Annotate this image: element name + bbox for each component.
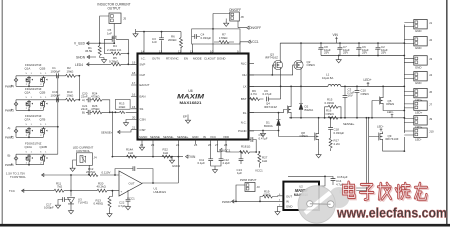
svg-text:21: 21: [132, 126, 136, 130]
svg-text:J4: J4: [94, 155, 97, 159]
svg-text:VCC1: VCC1: [222, 149, 231, 153]
svg-text:16: 16: [132, 92, 136, 96]
svg-text:LED-: LED-: [415, 138, 422, 142]
svg-text:DH: DH: [242, 73, 246, 77]
svg-text:J6: J6: [429, 90, 432, 94]
svg-text:0.110V: 0.110V: [102, 171, 111, 175]
svg-text:2: 2: [26, 84, 28, 86]
wire U2 VCC top feed: [288, 176, 325, 186]
wire LX line to inductor: [249, 85, 329, 87]
svg-text:25V: 25V: [324, 50, 329, 54]
svg-text:SENSE+: SENSE+: [177, 135, 189, 139]
wire twin sense pair down: [342, 118, 369, 191]
wire Q3 Q2 drains to LX line: [281, 70, 301, 87]
svg-text:MAX16821: MAX16821: [180, 100, 203, 105]
svg-text:TCC: TCC: [9, 189, 15, 193]
ground CSN pin: [123, 120, 131, 126]
svg-text:+: +: [356, 47, 358, 51]
svg-text:Q1B: Q1B: [40, 66, 46, 70]
svg-text:Q10B: Q10B: [40, 145, 47, 149]
connector J1: [404, 20, 432, 34]
wire VCC1 feed to R18: [226, 144, 240, 152]
wire J5 to V_ILED node: [100, 16, 109, 43]
svg-text:SHDN: SHDN: [76, 56, 86, 60]
svg-text:Q7B: Q7B: [40, 117, 46, 121]
svg-text:40.2kΩ: 40.2kΩ: [97, 185, 107, 189]
capacitor C11 0.1uF on GND pin: [198, 144, 216, 168]
svg-text:1nF: 1nF: [152, 40, 157, 44]
wire Q8 drain to sense rail: [318, 118, 320, 132]
resistor R22 1k: [162, 148, 172, 159]
wire J3 to PWM3 line: [236, 185, 245, 201]
transistor pair Q10A/Q10B FDG6317NZ: [16, 141, 56, 165]
svg-text:26: 26: [208, 143, 212, 147]
wire SENSE- pin down to op-amp output: [177, 144, 179, 183]
svg-text:5: 5: [26, 124, 28, 126]
watermark text chinese (hand-drawn strokes): [343, 182, 428, 201]
capacitor C17 1000pF: [44, 197, 71, 210]
svg-text:OUT: OUT: [286, 194, 292, 198]
svg-text:ON/OFF: ON/OFF: [249, 26, 261, 30]
svg-text:25V: 25V: [381, 50, 386, 54]
svg-text:PWM INPUT: PWM INPUT: [240, 178, 257, 182]
svg-text:LED-: LED-: [387, 110, 394, 114]
connector J3: [404, 56, 432, 70]
wire SENSE pin down to sense line: [152, 144, 154, 157]
svg-text:Q2B: Q2B: [40, 90, 46, 94]
svg-text:LED+: LED+: [415, 125, 423, 129]
svg-text:EAN: EAN: [140, 95, 146, 99]
ground at pin 14 node: [133, 32, 138, 37]
capacitor C2a top loop: [104, 39, 128, 64]
wire pin14 to R6 branch: [144, 32, 181, 48]
svg-text:www.elecfans.com: www.elecfans.com: [336, 205, 447, 221]
wire sense rail LED-: [289, 117, 404, 119]
capacitor C19 1000pF: [51, 90, 66, 102]
svg-text:PWM1: PWM1: [5, 163, 14, 167]
svg-text:CONTROL: CONTROL: [76, 149, 91, 153]
capacitor C9 0.47uF on BST: [263, 89, 281, 102]
capacitor C14 4.7uF: [333, 179, 344, 194]
resistor R14A 1k: [126, 148, 137, 159]
U6 right pin names: [238, 62, 247, 134]
svg-text:4.7µF: 4.7µF: [118, 204, 126, 208]
svg-text:25V: 25V: [343, 50, 348, 54]
svg-text:N.C.: N.C.: [241, 120, 247, 124]
net label ON/OFF right: [247, 26, 249, 29]
ground GND4 on sense line: [169, 156, 180, 168]
resistor R23 10k in box on EAN line: [115, 99, 131, 113]
wire row A to row B join: [102, 100, 110, 113]
svg-text:A): A): [8, 126, 11, 130]
svg-text:0.033µF: 0.033µF: [334, 131, 345, 135]
svg-text:LX: LX: [243, 85, 247, 89]
svg-text:J3: J3: [257, 185, 260, 189]
svg-text:OPEN: OPEN: [300, 134, 308, 138]
svg-text:1: 1: [45, 97, 47, 99]
ground at J8: [225, 19, 227, 22]
svg-text:19: 19: [132, 61, 136, 65]
svg-text:5: 5: [40, 151, 42, 153]
resistor R9 4.7 on BST: [249, 89, 264, 101]
svg-text:TLV431: TLV431: [78, 201, 88, 205]
svg-text:PWM2: PWM2: [5, 136, 14, 140]
svg-text:1kΩ: 1kΩ: [262, 159, 268, 163]
svg-text:CLP: CLP: [140, 73, 146, 77]
wire TCC line to op-amp plus: [22, 190, 120, 192]
svg-text:IRF7416Z: IRF7416Z: [265, 55, 278, 59]
svg-text:LED+: LED+: [415, 111, 423, 115]
svg-text:0.1µF: 0.1µF: [198, 161, 206, 165]
node PWM2 input port: [5, 127, 18, 140]
resistor R7 178k: [214, 33, 234, 44]
svg-text:LED4: LED4: [75, 63, 83, 67]
wire Q2 source to VIN rail: [300, 43, 302, 60]
svg-text:2: 2: [40, 84, 42, 86]
wire comp box to IC: [192, 43, 194, 45]
svg-text:B): B): [82, 111, 85, 115]
ground at return rail: [338, 56, 340, 58]
svg-text:GND: GND: [415, 46, 421, 50]
svg-text:24: 24: [176, 143, 180, 147]
svg-text:10kΩ: 10kΩ: [119, 105, 127, 109]
svg-text:1000pF: 1000pF: [51, 93, 61, 97]
capacitor C18 0.033uF column: [328, 117, 344, 138]
svg-text:2: 2: [26, 108, 28, 110]
wire BST node to LX: [280, 86, 282, 99]
svg-text:5: 5: [26, 151, 28, 153]
page frame bottom border: [0, 224, 450, 227]
svg-text:-: -: [121, 173, 122, 177]
svg-text:OPEN: OPEN: [326, 112, 334, 116]
svg-text:1Ω: 1Ω: [247, 145, 252, 149]
wire Q3 source to VIN rail: [279, 43, 281, 60]
svg-text:2: 2: [40, 135, 42, 137]
capacitor C5 1nF: [107, 28, 117, 38]
svg-text:SENSE+: SENSE+: [101, 130, 113, 134]
svg-text:5: 5: [26, 97, 28, 99]
wire PWM3 to U2 IN: [232, 200, 278, 202]
node B RC row C21 R26: [81, 104, 138, 115]
wire RC join vertical: [78, 76, 80, 100]
resistor R12 26.7k: [86, 167, 98, 177]
svg-text:DL: DL: [243, 111, 247, 115]
potentiometer box R21 LED current control: [76, 153, 97, 166]
svg-text:1µF: 1µF: [237, 171, 242, 175]
resistor R15 0.039 sense: [324, 98, 342, 119]
transistor Q3 IRF7416: [265, 52, 283, 69]
wire ON/OFF box to EN drop: [213, 13, 230, 15]
svg-text:5: 5: [26, 73, 28, 75]
svg-text:VDD: VDD: [223, 135, 229, 139]
resistor R20 40.2k: [97, 181, 108, 192]
wire VIN input rail: [280, 42, 404, 44]
svg-text:2: 2: [40, 163, 42, 165]
ground at R1: [101, 58, 106, 63]
svg-text:GND4: GND4: [172, 164, 180, 168]
page frame right border: [446, 0, 448, 226]
wire TCONTROL to op-amp minus: [42, 174, 120, 176]
svg-text:SGND: SGND: [139, 135, 147, 139]
wire J5 pin2 down through C5: [113, 24, 115, 44]
capacitor C13 1uF: [237, 151, 244, 175]
wire op-amp output: [142, 182, 178, 184]
svg-text:2.49kΩ 1%: 2.49kΩ 1%: [107, 48, 122, 52]
svg-text:MODE: MODE: [193, 56, 202, 60]
capacitor C15 1uF: [325, 175, 348, 184]
svg-text:200kΩ: 200kΩ: [168, 38, 177, 42]
svg-text:CLKOUT: CLKOUT: [204, 56, 216, 60]
svg-text:2.2µF: 2.2µF: [223, 161, 231, 165]
svg-text:PWM3: PWM3: [5, 109, 14, 113]
wire Q4 drain to LX: [290, 86, 292, 105]
svg-text:OPEN: OPEN: [307, 63, 315, 67]
svg-text:+: +: [121, 190, 123, 194]
svg-text:+: +: [318, 47, 320, 51]
svg-text:Q7A: Q7A: [25, 117, 31, 121]
svg-text:5: 5: [40, 97, 42, 99]
wire V_ILED: [87, 42, 115, 44]
wire DH to gates of Q2 Q3: [249, 65, 294, 75]
transistor pair Q2A/Q2B FDG6317NZ: [16, 87, 56, 111]
svg-text:27: 27: [215, 143, 219, 147]
svg-text:0.47µF: 0.47µF: [263, 92, 272, 96]
resistor R19 10k: [260, 189, 278, 201]
svg-text:J2: J2: [429, 38, 432, 42]
svg-text:J7: J7: [429, 102, 432, 106]
capacitor C4 0.033uF: [192, 33, 212, 40]
connector J10: [404, 128, 434, 142]
svg-text:9.76kΩ: 9.76kΩ: [109, 59, 119, 63]
transistor Q2 OPEN: [294, 60, 315, 70]
ground at U2 GND: [277, 206, 279, 209]
svg-text:2.2Ω: 2.2Ω: [334, 142, 341, 146]
svg-text:LMH6321: LMH6321: [154, 190, 167, 194]
svg-text:CSP: CSP: [140, 128, 146, 132]
svg-text:2: 2: [26, 135, 28, 137]
shunt reference U3 TLV431: [68, 191, 89, 209]
svg-text:GND: GND: [192, 135, 198, 139]
svg-text:GND: GND: [286, 205, 292, 209]
U6 top pin names: [141, 56, 226, 60]
U6 left pin stubs: [131, 64, 138, 129]
wire LED+ rail: [341, 85, 405, 87]
svg-text:10µH 8A: 10µH 8A: [322, 76, 333, 80]
svg-text:IRF7413Z: IRF7413Z: [386, 137, 399, 141]
svg-text:GND: GND: [415, 65, 421, 69]
svg-text:J1: J1: [429, 21, 432, 25]
svg-text:1µF: 1µF: [343, 175, 348, 179]
node PWM3 input port: [5, 100, 18, 113]
connector J6: [404, 88, 432, 102]
resistor R27 1k to VCC1 arrow: [255, 151, 268, 172]
resistor R6 200k on RT/SYNC: [168, 35, 183, 48]
wire PGND: [249, 130, 279, 132]
wire pot wiper down: [88, 165, 90, 175]
wire row bus vertical: [56, 76, 58, 154]
U2 pin stubs: [278, 196, 284, 207]
diode D2 B320A: [299, 86, 313, 118]
svg-text:GND: GND: [415, 29, 421, 33]
ground under R13: [107, 212, 112, 217]
U6 exposed pad EP with ground: [183, 115, 191, 124]
U6 bottom pin names: [139, 135, 229, 139]
ground at SGND pin: [141, 144, 143, 145]
connector J4: [404, 72, 432, 86]
svg-text:J5: J5: [123, 17, 126, 21]
svg-text:19kΩ: 19kΩ: [67, 69, 75, 73]
svg-text:J8: J8: [241, 15, 244, 19]
svg-text:36.5k: 36.5k: [85, 49, 93, 53]
svg-text:TVIN: TVIN: [188, 155, 196, 159]
svg-text:1kΩ: 1kΩ: [163, 151, 169, 155]
U6 bottom pin numbers: [140, 143, 228, 147]
ground under TLV431: [68, 209, 73, 214]
svg-text:SENSE: SENSE: [150, 135, 160, 139]
svg-text:25V: 25V: [362, 50, 367, 54]
connector J2: [404, 37, 432, 51]
page frame left border: [1, 0, 3, 226]
svg-text:1: 1: [45, 151, 47, 153]
svg-text:J10: J10: [429, 129, 434, 133]
U6 left pin numbers: [132, 61, 136, 130]
svg-text:25: 25: [194, 143, 198, 147]
U6 right pin stubs: [249, 63, 255, 131]
regulator U2 MAX8510 body: [283, 182, 319, 210]
svg-text:2: 2: [40, 108, 42, 110]
svg-text:CSN: CSN: [140, 118, 146, 122]
svg-text:GND: GND: [415, 81, 421, 85]
svg-text:15: 15: [132, 105, 136, 109]
svg-text:SS: SS: [140, 107, 144, 111]
wire R12 tap down to TLV431: [70, 175, 72, 191]
inductor L1 10uH 8A: [322, 73, 341, 87]
wire right connector bus: [403, 25, 405, 134]
svg-text:0.499Ω: 0.499Ω: [94, 202, 104, 206]
resistor R5 9.76k on SVP wire: [87, 56, 138, 66]
capacitor C7 10uF 25V: [337, 42, 350, 55]
svg-text:475kΩ: 475kΩ: [91, 94, 100, 98]
svg-text:16V: 16V: [348, 94, 353, 98]
svg-text:PWM3: PWM3: [222, 200, 231, 204]
ground at Q8 source: [318, 141, 320, 152]
svg-text:I.C.: I.C.: [141, 56, 146, 60]
connector J3 PWM input: [245, 183, 260, 192]
svg-text:B320A: B320A: [305, 108, 314, 112]
svg-text:+: +: [375, 47, 377, 51]
transistor Q5 OPEN: [371, 86, 404, 119]
svg-text:A): A): [82, 98, 85, 102]
svg-text:0.47µF: 0.47µF: [259, 136, 268, 140]
svg-text:OUT: OUT: [129, 182, 135, 186]
net label VCC1 at IC bottom: [218, 144, 222, 152]
wire Q4 source to return rail: [290, 114, 292, 118]
capacitor C3b 2.2uF 16V: [343, 86, 355, 119]
svg-text:13: 13: [159, 49, 163, 53]
diode D1 B320A: [264, 112, 281, 137]
resistor R1 36.5k vertical: [85, 43, 104, 57]
op-amp / controller IC U6 MAX16821 body: [138, 54, 249, 140]
svg-text:OUTV: OUTV: [152, 56, 160, 60]
transistor pair Q7A/Q7B FDG6317NZ: [16, 114, 56, 138]
svg-text:U6: U6: [188, 89, 192, 93]
capacitor C8 10uF 25V: [318, 42, 331, 55]
ground under C11 C12: [212, 168, 217, 173]
capacitor C12 2.2uF on VCC pin: [215, 152, 230, 166]
svg-text:J3: J3: [429, 57, 432, 61]
capacitor C3 1nF on OUTV pin: [152, 31, 164, 45]
svg-text:SENSE-: SENSE-: [163, 135, 174, 139]
connector J7: [404, 101, 432, 115]
U6 bottom pin stubs: [142, 140, 226, 145]
svg-text:4.7Ω: 4.7Ω: [251, 92, 258, 96]
svg-text:VCC1: VCC1: [250, 40, 259, 44]
svg-text:178kΩ: 178kΩ: [219, 36, 228, 40]
svg-text:1: 1: [31, 124, 33, 126]
capacitor C10 OPEN: [355, 86, 369, 119]
svg-text:IRF7413Z: IRF7413Z: [264, 105, 277, 109]
svg-text:NLC: NLC: [241, 62, 247, 66]
resistor R18 1ohm: [240, 145, 257, 154]
svg-text:7kΩ: 7kΩ: [57, 185, 63, 189]
connector J9: [404, 116, 432, 130]
svg-text:V_ILED: V_ILED: [74, 41, 86, 45]
resistor R4 2.49k: [104, 43, 129, 55]
svg-text:26.7kΩ: 26.7kΩ: [86, 170, 96, 174]
net label TVIN: [186, 155, 188, 158]
svg-text:5: 5: [40, 73, 42, 75]
net label SENSE+ to CSP: [101, 130, 131, 135]
node PWM4 input port: [5, 76, 18, 89]
svg-text:19kΩ: 19kΩ: [67, 93, 75, 97]
svg-text:5: 5: [40, 124, 42, 126]
svg-text:475kΩ: 475kΩ: [91, 107, 100, 111]
svg-text:EAOUT: EAOUT: [140, 83, 150, 87]
svg-text:OUTPUT: OUTPUT: [107, 7, 120, 11]
svg-text:J4: J4: [429, 73, 432, 77]
svg-text:0.033µF: 0.033µF: [201, 36, 212, 40]
node A RC row C20 R24: [81, 91, 102, 102]
svg-text:1nF: 1nF: [107, 31, 112, 35]
svg-text:1: 1: [45, 124, 47, 126]
svg-text:B): B): [8, 154, 11, 158]
capacitor C23 feedback: [114, 166, 154, 184]
svg-text:2: 2: [26, 163, 28, 165]
svg-text:18: 18: [132, 71, 136, 75]
connector J5 inductor current output: [109, 13, 126, 24]
resistor R11 7k: [54, 181, 64, 192]
box around C4 / R7 compensation: [192, 29, 240, 44]
svg-text:IN: IN: [286, 200, 289, 204]
svg-text:17: 17: [132, 81, 136, 85]
ground at pot: [73, 160, 77, 166]
svg-text:RT/SYNC: RT/SYNC: [166, 56, 179, 60]
svg-text:1: 1: [45, 73, 47, 75]
svg-text:J9: J9: [429, 117, 432, 121]
svg-text:1: 1: [31, 97, 33, 99]
svg-text:20: 20: [132, 115, 136, 119]
svg-text:PWM4: PWM4: [5, 85, 14, 89]
capacitor C1 1000pF: [51, 66, 66, 78]
svg-text:BST: BST: [241, 97, 247, 101]
svg-text:OPEN: OPEN: [386, 102, 394, 106]
capacitor C6 10uF 25V: [356, 42, 369, 56]
svg-text:EP: EP: [183, 115, 187, 119]
svg-text:1000pF: 1000pF: [51, 69, 61, 73]
wire ground return rail: [321, 55, 404, 57]
U6 left pin names: [140, 63, 150, 132]
svg-text:VCC1: VCC1: [255, 169, 263, 173]
